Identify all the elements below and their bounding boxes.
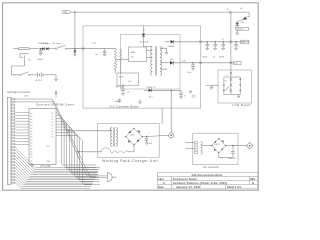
ground — [210, 87, 213, 89]
svg-text:5: 5 — [8, 111, 9, 113]
bus wires A — [15, 147, 100, 188]
svg-text:Batterienu: Batterienu — [236, 28, 243, 31]
svg-text:uMBuBL: uMBuBL — [168, 46, 175, 48]
svg-text:3: 3 — [8, 105, 9, 107]
transformer T2 — [111, 127, 118, 146]
transformer T1 — [151, 46, 168, 75]
svg-text:1-3 Power: 1-3 Power — [53, 42, 62, 45]
component box X2 — [117, 73, 139, 86]
capacitor C11 — [145, 133, 152, 145]
net tag GND — [62, 10, 70, 14]
junction tag diamond — [149, 95, 195, 99]
svg-text:1: 1 — [8, 99, 9, 101]
svg-text:C1: C1 — [143, 30, 145, 32]
board outline DC connector — [193, 133, 238, 165]
svg-text:8: 8 — [8, 120, 9, 122]
svg-text:Date: Date — [158, 186, 164, 189]
fuse F1 — [18, 43, 50, 50]
svg-text:24: 24 — [8, 168, 10, 170]
resistor R1 — [114, 49, 117, 59]
connector pins — [11, 98, 15, 184]
junction — [223, 79, 241, 91]
wire — [161, 108, 163, 124]
capacitor C1 — [37, 49, 43, 61]
svg-text:26: 26 — [8, 174, 10, 176]
svg-text:100uF: 100uF — [219, 57, 225, 59]
wire — [76, 151, 102, 152]
svg-text:13: 13 — [8, 135, 10, 137]
relay arc — [102, 148, 111, 152]
wire — [67, 128, 111, 132]
node A — [227, 8, 231, 13]
text — [146, 87, 156, 89]
wire — [116, 58, 129, 61]
diode D4 — [170, 59, 174, 65]
svg-text:1.uH: 1.uH — [92, 43, 97, 45]
wire stubs — [186, 143, 195, 149]
connector plug P3 — [88, 173, 117, 182]
svg-text:uMB4: uMB4 — [131, 52, 136, 54]
svg-text:10: 10 — [8, 126, 10, 128]
svg-text:15: 15 — [8, 141, 10, 143]
node X left edge — [82, 47, 85, 50]
wire — [144, 89, 149, 91]
svg-text:uF: uF — [184, 95, 186, 97]
wire — [49, 48, 56, 50]
svg-text:Files: Files — [158, 178, 164, 181]
svg-text:A1: A1 — [30, 115, 32, 118]
svg-text:D0: D0 — [51, 113, 53, 115]
svg-text:+6.12U: +6.12U — [35, 80, 42, 82]
diode D1 — [140, 26, 149, 43]
svg-text:D3: D3 — [51, 122, 53, 124]
svg-text:Cartridge Connector: Cartridge Connector — [7, 90, 30, 94]
wire H1 rail — [70, 11, 249, 13]
svg-text:L604MB: L604MB — [160, 69, 167, 71]
svg-text:A: A — [163, 181, 165, 185]
svg-text:uu00u: uu00u — [130, 135, 135, 137]
connector pins — [194, 142, 197, 154]
svg-text:A7: A7 — [30, 133, 32, 136]
node X — [230, 40, 233, 43]
svg-text:D1: D1 — [51, 116, 53, 118]
net tag +5V — [241, 40, 249, 44]
capacitor C12 — [227, 146, 236, 160]
svg-text:+: + — [229, 152, 231, 154]
board outline charger — [97, 124, 159, 158]
wire — [226, 145, 238, 147]
IC label — [36, 102, 75, 106]
svg-text:OE: OE — [30, 157, 33, 159]
svg-text:A2: A2 — [30, 118, 32, 121]
svg-text:70P: 70P — [170, 59, 174, 61]
board label — [110, 104, 139, 108]
wire — [236, 26, 238, 28]
svg-text:LCD Board: LCD Board — [233, 103, 251, 107]
node X — [199, 40, 202, 43]
svg-text:2N4148 2N4: 2N4148 2N4 — [38, 43, 48, 45]
svg-text:VSS: VSS — [47, 161, 51, 163]
svg-text:SCmmOH: SCmmOH — [140, 41, 149, 43]
svg-text:A1: A1 — [30, 144, 32, 147]
supply arrow — [55, 91, 57, 98]
svg-text:D.C Converter Board: D.C Converter Board — [110, 104, 139, 108]
svg-text:42.7: 42.7 — [149, 97, 153, 99]
wire — [202, 145, 212, 147]
resistor R2 — [114, 61, 117, 70]
svg-text:22: 22 — [8, 162, 10, 164]
diode D6 — [46, 47, 49, 50]
wire vertical V+ — [230, 12, 232, 94]
svg-text:21: 21 — [8, 159, 10, 161]
IC U2 27C256 — [29, 109, 56, 165]
svg-text:D5: D5 — [51, 128, 53, 130]
svg-text:D6: D6 — [51, 131, 53, 133]
diode D3 — [38, 43, 48, 50]
svg-text:L: L — [149, 133, 150, 135]
svg-text:+12U: +12U — [181, 60, 186, 62]
svg-text:220uF 63U: 220uF 63U — [227, 158, 236, 160]
ground — [189, 90, 192, 93]
wire — [12, 66, 25, 75]
node X — [199, 61, 202, 64]
wire — [219, 153, 233, 158]
svg-text:11: 11 — [8, 129, 10, 131]
net tag +12 — [234, 62, 241, 66]
wire — [115, 69, 117, 73]
svg-text:27: 27 — [8, 177, 10, 179]
svg-text:6: 6 — [8, 114, 9, 116]
board outline DC converter — [83, 26, 201, 108]
svg-text:28: 28 — [8, 180, 10, 182]
capacitor C4 — [212, 41, 217, 59]
junction — [170, 90, 171, 91]
wire — [83, 48, 116, 50]
node X — [230, 61, 233, 64]
text — [24, 95, 29, 97]
inductor L5 label — [222, 39, 224, 41]
svg-text:A: A — [227, 8, 229, 11]
coil L7 — [201, 142, 203, 155]
bus wires B — [56, 113, 100, 185]
svg-text:18: 18 — [8, 150, 10, 152]
svg-text:.NO: .NO — [128, 81, 132, 83]
svg-text:+5U: +5U — [241, 42, 245, 44]
wire — [159, 134, 169, 136]
ground — [54, 79, 57, 81]
svg-text:VCC: VCC — [47, 146, 51, 148]
svg-text:A6: A6 — [30, 130, 32, 133]
inductor L1 label — [92, 43, 97, 45]
capacitor C7 — [179, 90, 186, 98]
capacitor C2 — [95, 49, 107, 57]
svg-text:1-B: 1-B — [131, 57, 135, 59]
wire — [236, 30, 238, 33]
junction — [192, 62, 193, 63]
svg-text:D4: D4 — [51, 125, 53, 127]
svg-text:D7: D7 — [51, 134, 53, 136]
capacitor C5 — [219, 41, 225, 59]
svg-text:.01: .01 — [212, 57, 215, 59]
svg-text:January 15, 2002: January 15, 2002 — [176, 185, 201, 189]
wire — [13, 48, 18, 50]
svg-text:uF: uF — [127, 92, 130, 94]
junction — [232, 145, 233, 146]
svg-text:12: 12 — [8, 132, 10, 134]
svg-text:17: 17 — [8, 147, 10, 149]
connector label — [7, 90, 30, 94]
svg-text:L00u: L00u — [188, 72, 192, 74]
wire — [142, 135, 159, 138]
svg-text:Document Name: Document Name — [173, 177, 198, 181]
junction — [74, 48, 75, 49]
wire — [29, 48, 46, 50]
bridge rectifier BR2 — [211, 138, 226, 153]
wire — [173, 60, 234, 62]
node X — [230, 89, 233, 92]
pin numbers — [30, 112, 53, 162]
wire — [144, 37, 153, 47]
svg-text:REV: REV — [250, 178, 255, 181]
junction — [40, 48, 41, 49]
capacitor C6 — [234, 41, 238, 50]
node X — [230, 78, 233, 81]
wire +5V rail — [201, 41, 249, 43]
svg-text:A3: A3 — [30, 150, 32, 153]
net tag Batterie — [236, 27, 249, 30]
svg-text:A9: A9 — [30, 139, 32, 142]
svg-text:A4: A4 — [30, 124, 32, 127]
ground — [165, 53, 168, 55]
svg-text:A5: A5 — [30, 127, 32, 130]
svg-text:D0: D0 — [51, 137, 53, 139]
svg-text:2: 2 — [8, 102, 9, 104]
svg-text:7: 7 — [8, 117, 9, 119]
ground — [139, 100, 142, 104]
svg-text:CE: CE — [30, 161, 33, 163]
text — [143, 30, 145, 32]
svg-text:L: L — [226, 75, 227, 77]
svg-text:A0: A0 — [30, 142, 32, 145]
wire — [55, 75, 57, 79]
connector grid box — [224, 77, 240, 95]
svg-text:4: 4 — [8, 108, 9, 110]
battery BT1 — [30, 72, 56, 82]
wire — [160, 62, 170, 64]
text — [116, 86, 125, 88]
text — [47, 146, 51, 163]
svg-text:14: 14 — [8, 138, 10, 140]
svg-text:16: 16 — [8, 144, 10, 146]
svg-text:100P: 100P — [119, 77, 124, 79]
capacitor C10 — [114, 99, 122, 103]
wire — [147, 50, 153, 52]
connector P1 — [169, 133, 174, 138]
svg-text:Sheet 1 of 1: Sheet 1 of 1 — [227, 185, 242, 189]
wire — [225, 87, 229, 91]
border frame — [3, 3, 259, 190]
svg-text:B: B — [252, 181, 254, 185]
IC name — [40, 164, 51, 168]
wire — [74, 12, 76, 49]
svg-text:A2: A2 — [30, 147, 32, 150]
node X — [230, 72, 233, 75]
diode D8 — [74, 49, 77, 57]
diode D7 — [236, 23, 239, 26]
wire — [206, 86, 218, 88]
connector J2 body — [7, 97, 11, 184]
svg-text:A0: A0 — [30, 112, 32, 115]
text — [224, 75, 227, 83]
connector P2 diamond — [246, 142, 252, 148]
svg-text:Working Pack-Charger Unit: Working Pack-Charger Unit — [102, 159, 158, 163]
wire VCC run — [15, 99, 88, 176]
op-amp U1 box — [129, 47, 147, 62]
svg-text:GND: GND — [63, 12, 68, 14]
svg-text:DC. Connector: DC. Connector — [203, 166, 219, 169]
svg-text:htlp.//xxx.xxxxxxx.xx/xxx: htlp.//xxx.xxxxxxx.xx/xxx — [192, 173, 223, 177]
module box — [121, 35, 181, 90]
ground — [31, 163, 34, 166]
svg-text:50uF: 50uF — [148, 143, 152, 145]
svg-text:2.8u: 2.8u — [241, 22, 244, 24]
wire — [160, 48, 167, 52]
svg-text:A3: A3 — [30, 121, 32, 124]
capacitor C3 — [202, 41, 209, 59]
svg-text:L5: L5 — [222, 39, 224, 41]
transistor Q1 — [237, 8, 249, 24]
pin numbers — [8, 99, 10, 185]
svg-text:23: 23 — [8, 165, 10, 167]
svg-text:1.8: 1.8 — [224, 81, 226, 83]
resistor R4 — [111, 151, 129, 153]
svg-text:D2: D2 — [51, 119, 53, 121]
diode D5 — [149, 89, 152, 92]
svg-text:A4: A4 — [30, 153, 32, 156]
wire — [248, 12, 250, 17]
wire — [128, 145, 134, 152]
bridge rectifier BR1 — [125, 128, 143, 146]
capacitor C9 — [121, 84, 130, 95]
switch SW2 — [20, 72, 31, 76]
wire — [170, 90, 172, 133]
junction — [74, 11, 75, 12]
title block — [158, 172, 258, 189]
ground — [236, 33, 239, 35]
board outline LCD — [218, 70, 252, 103]
wire GND run — [15, 102, 92, 178]
wires EPROM left pins — [15, 112, 29, 144]
wire — [147, 57, 153, 59]
svg-text:L6: L6 — [240, 8, 242, 10]
svg-text:27C256: 27C256 — [40, 164, 51, 168]
svg-text:ZUMUL TU: ZUMUL TU — [146, 87, 156, 89]
wire — [174, 41, 201, 43]
connector jack J1 — [20, 54, 31, 66]
svg-text:U-MOO: U-MOO — [214, 144, 220, 146]
wire — [152, 89, 182, 91]
svg-text:uVCC: uVCC — [24, 95, 29, 97]
capacitor C8 — [188, 63, 195, 74]
svg-text:100uF: 100uF — [202, 57, 208, 59]
svg-text:A8: A8 — [30, 136, 32, 139]
switch SW1 — [53, 42, 67, 49]
svg-text:19: 19 — [8, 153, 10, 155]
board label — [203, 166, 219, 169]
board label — [102, 159, 158, 163]
resistor R3 — [120, 49, 123, 73]
node X — [230, 84, 233, 87]
wire — [67, 48, 83, 50]
svg-text:100uF: 100uF — [37, 59, 43, 61]
board label — [233, 103, 251, 107]
svg-text:20: 20 — [8, 156, 10, 158]
svg-text:9: 9 — [8, 123, 9, 125]
ground — [237, 95, 240, 98]
svg-text:.00: .00 — [95, 54, 99, 56]
svg-text:Geodetic Stations (Power & Bu.: Geodetic Stations (Power & Bu. 2025) — [173, 181, 227, 185]
diode D2 — [165, 40, 175, 48]
svg-text:25: 25 — [8, 171, 10, 173]
wire — [238, 145, 246, 147]
